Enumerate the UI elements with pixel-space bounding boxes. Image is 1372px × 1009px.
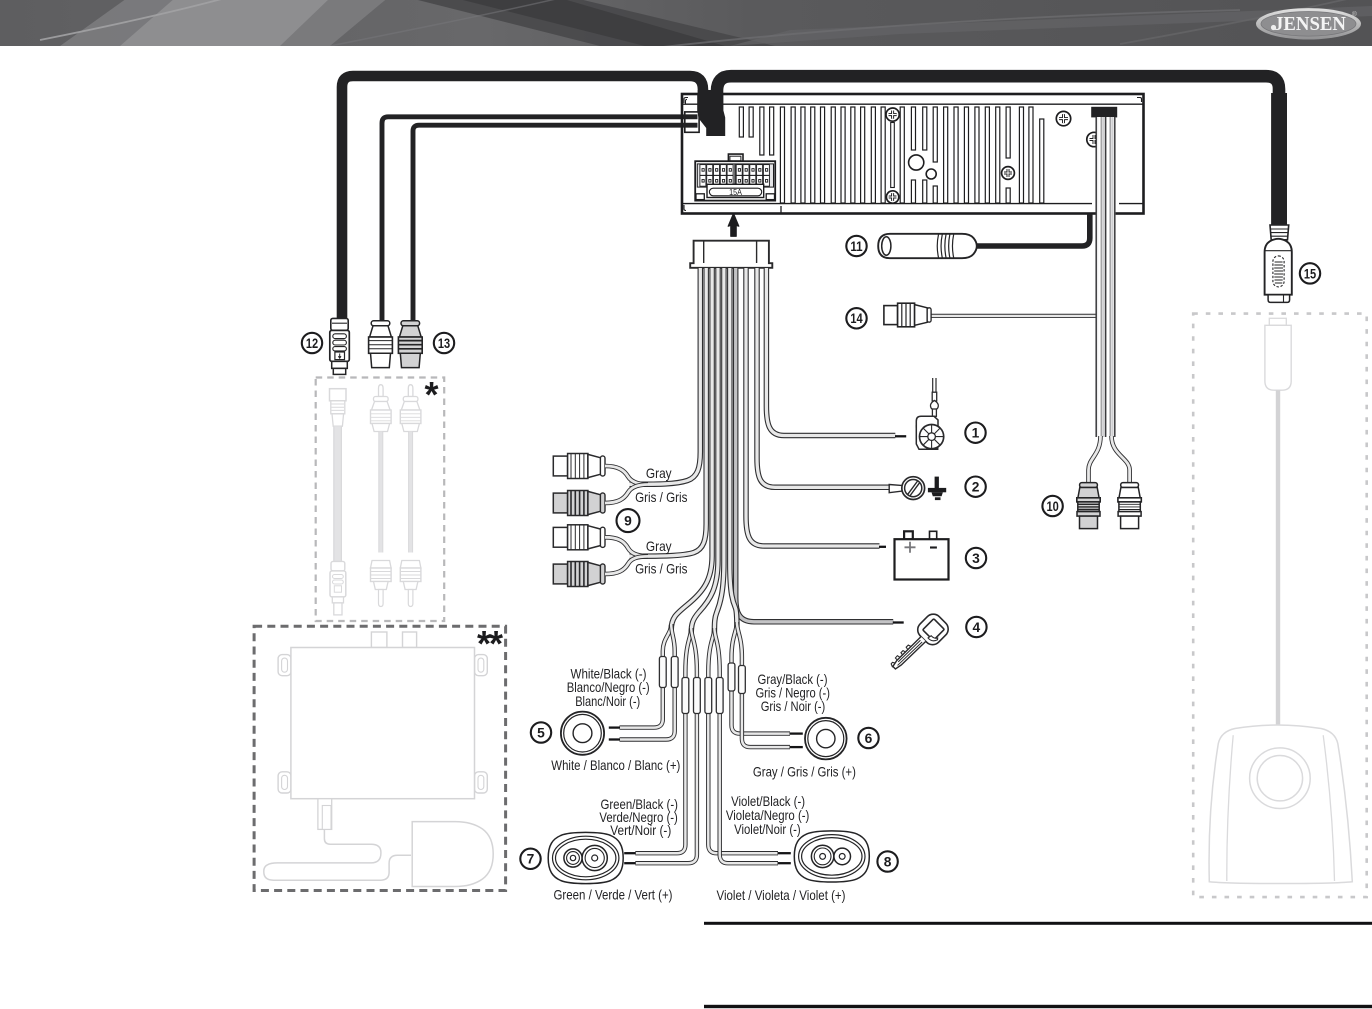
callout 3 <box>966 548 986 568</box>
callout 7 <box>520 849 540 869</box>
connector (item 14) <box>884 303 931 327</box>
header banner <box>0 0 1372 52</box>
bottom rule 1 <box>704 922 1372 925</box>
bare wire tips for leads 1-4 <box>879 436 906 622</box>
svg-text:10: 10 <box>1046 499 1059 514</box>
callout 1 <box>965 423 985 443</box>
ignition key (item 4) <box>885 611 952 678</box>
vent slots <box>739 107 1043 203</box>
svg-text:6: 6 <box>865 731 873 746</box>
ghost CD changer box <box>264 632 493 887</box>
wire: front RCA white to Y <box>605 466 648 484</box>
svg-text:15A: 15A <box>729 188 742 197</box>
battery (item 3) <box>895 531 949 579</box>
wire: antenna adapter lead <box>974 214 1090 246</box>
speaker 5 (front left, round) <box>561 712 604 755</box>
ghost RCA jack <box>1265 318 1291 724</box>
RCA leads (item 9) <box>553 454 605 479</box>
wire: item10 right <box>1112 436 1130 482</box>
callout 5 <box>531 722 551 742</box>
harness connector body <box>690 241 772 268</box>
cable entry box on left edge <box>685 112 699 132</box>
wire: rear RCA white to Y <box>605 537 648 556</box>
speaker 8 (rear right, oval) <box>794 831 869 882</box>
chassis ground symbol <box>928 477 946 500</box>
ground ring terminal (item 2) <box>889 477 924 500</box>
wire: thin cable to connector 13 (white plug) <box>382 117 697 322</box>
svg-text:3: 3 <box>972 551 980 566</box>
S-video plug (item 12) <box>330 318 350 374</box>
RCA plug gray (item 10) <box>1077 483 1100 529</box>
JENSEN logo <box>1256 8 1361 39</box>
svg-text:Gray: Gray <box>646 538 672 554</box>
svg-text:Violet / Violeta / Violet (+): Violet / Violeta / Violet (+) <box>717 887 846 903</box>
speaker 6 (front right, round) <box>805 718 847 760</box>
svg-text:11: 11 <box>850 239 863 254</box>
callout 6 <box>858 728 878 748</box>
svg-text:9: 9 <box>624 514 632 529</box>
20-pin ISO connector block <box>695 154 775 201</box>
antenna adapter barrel (item 11) <box>878 234 977 258</box>
bottom rule 2 <box>704 1005 1372 1008</box>
harness to RCA pair (item 10) <box>1091 107 1117 118</box>
svg-text:JENSEN: JENSEN <box>1274 13 1347 35</box>
RCA plug white (item 10) <box>1118 483 1141 529</box>
callout 9 <box>617 509 640 532</box>
optional cables dashed box (*) <box>316 378 445 622</box>
wire: item10 left <box>1089 436 1101 482</box>
svg-text:Violet/Noir (-): Violet/Noir (-) <box>734 821 801 837</box>
screw behind harness <box>1087 132 1101 146</box>
svg-text:Blanc/Noir (-): Blanc/Noir (-) <box>575 693 640 709</box>
svg-text:7: 7 <box>527 852 535 867</box>
screw right of vents <box>1002 167 1015 180</box>
callout 11 <box>846 236 866 256</box>
optional CD changer dashed box (**) <box>254 626 506 890</box>
ghost RCA extension cable <box>400 385 421 607</box>
svg-text:Gris / Gris: Gris / Gris <box>635 561 687 577</box>
svg-text:*: * <box>424 374 438 415</box>
svg-text:12: 12 <box>306 336 319 351</box>
callout 10 <box>1042 496 1062 516</box>
callout 4 <box>966 617 986 637</box>
svg-text:2: 2 <box>972 480 980 495</box>
svg-text:14: 14 <box>850 311 863 326</box>
head unit rear panel <box>682 90 1144 214</box>
S-video connector (item 15) <box>1265 225 1292 302</box>
wire: thick cable to connector 15 <box>717 76 1279 227</box>
svg-text:®: ® <box>1352 10 1357 18</box>
fuse 15A <box>696 194 704 200</box>
black moulded junction at head unit top <box>697 93 725 136</box>
wire: item 14 lead <box>929 214 1103 316</box>
svg-text:13: 13 <box>438 336 451 351</box>
wire: rear RCA gray to Y <box>605 556 648 574</box>
screw top right <box>1056 111 1070 125</box>
optional subwoofer dashed box <box>1193 314 1367 898</box>
ghost RCA extension cable <box>371 385 392 607</box>
svg-text:Gray: Gray <box>646 465 672 481</box>
svg-text:Gris / Noir (-): Gris / Noir (-) <box>761 698 826 714</box>
round hole large <box>909 155 924 170</box>
svg-text:5: 5 <box>537 725 545 740</box>
svg-text:Gray / Gris / Gris (+): Gray / Gris / Gris (+) <box>753 764 856 780</box>
power antenna motor (item 1) <box>916 378 943 449</box>
speaker 7 (rear left, oval) <box>548 832 623 883</box>
harness wire bundle <box>630 268 896 680</box>
callout 13 <box>434 333 454 353</box>
ghost S-video extension cable <box>330 389 347 615</box>
svg-text:Gris / Gris: Gris / Gris <box>635 489 687 505</box>
callout 14 <box>846 308 866 328</box>
wire: thin cable to connector 13 (gray plug) <box>413 125 697 322</box>
svg-text:1: 1 <box>972 426 980 441</box>
callout 2 <box>965 477 985 497</box>
svg-text:8: 8 <box>884 854 892 869</box>
ghost subwoofer <box>1209 725 1352 884</box>
screw top middle <box>886 108 899 121</box>
round hole small <box>926 169 936 179</box>
svg-text:Green / Verde / Vert (+): Green / Verde / Vert (+) <box>554 887 673 903</box>
RCA plug white (item 13) <box>369 321 393 368</box>
callout 12 <box>302 333 322 353</box>
arrow from harness to unit <box>728 214 739 237</box>
wire: front RCA gray to Y <box>605 485 648 504</box>
svg-text:White / Blanco / Blanc (+): White / Blanco / Blanc (+) <box>551 757 680 773</box>
speaker wires with crimp sleeves <box>620 657 791 864</box>
svg-text:4: 4 <box>973 620 981 635</box>
wire: thick cable to connector 12 <box>342 76 703 322</box>
bare wire tips at speakers <box>609 728 803 864</box>
screw bottom middle <box>886 191 898 203</box>
callout 15 <box>1300 263 1320 283</box>
RCA plug gray (item 13) <box>398 321 422 368</box>
callout 8 <box>877 851 897 871</box>
svg-text:15: 15 <box>1304 266 1317 281</box>
svg-text:Vert/Noir (-): Vert/Noir (-) <box>610 822 671 838</box>
